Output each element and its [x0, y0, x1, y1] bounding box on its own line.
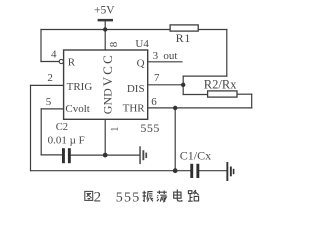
svg-text:2: 2	[47, 72, 53, 84]
wire pin 5 Cvolt stub	[41, 108, 63, 110]
svg-text:5: 5	[46, 96, 52, 108]
svg-text:R2/Rx: R2/Rx	[204, 78, 237, 92]
svg-text:GND: GND	[100, 88, 114, 114]
svg-text:VCC: VCC	[100, 53, 115, 86]
svg-text:DIS: DIS	[127, 83, 145, 95]
power symbol +5V bar	[98, 19, 113, 22]
svg-text:6: 6	[151, 96, 157, 108]
svg-text:C2: C2	[56, 122, 68, 133]
wire rail to R1 right corner	[198, 29, 226, 31]
svg-text:THR: THR	[123, 103, 146, 115]
capacitor C1/Cx plates	[190, 164, 199, 178]
wire bottom rail TRIG-THR-C1 net	[31, 170, 191, 172]
wire R2 right vertical to THR	[251, 94, 253, 108]
wire left loop vertical to pin 4	[40, 30, 42, 62]
node junction dot C2/GND	[103, 153, 108, 158]
wire pin 8 VCC vertical	[104, 30, 106, 51]
wire DIS node vertical	[182, 76, 184, 94]
node junction dot DIS/R1/R2	[181, 83, 185, 87]
wire R1 bottom to DIS node	[183, 75, 227, 77]
svg-text:0.01 µ F: 0.01 µ F	[48, 135, 85, 147]
wire top rail +5V net	[41, 29, 170, 31]
svg-text:Cvolt: Cvolt	[65, 103, 89, 115]
caption glyph 振	[142, 191, 153, 202]
wire +5V drop	[104, 21, 106, 30]
capacitor C2 plates	[62, 148, 71, 163]
svg-text:555: 555	[116, 190, 141, 205]
wire R2 left lead	[183, 94, 207, 96]
svg-text:C1/Cx: C1/Cx	[180, 149, 211, 163]
wire R1 right vertical	[226, 30, 228, 77]
wire pin 2 TRIG stub	[31, 84, 64, 86]
svg-text:2: 2	[94, 190, 102, 206]
svg-text:7: 7	[154, 72, 160, 84]
wire pin 6 THR	[148, 107, 252, 109]
svg-text:+5V: +5V	[94, 4, 115, 16]
resistor R1	[170, 25, 198, 45]
caption glyph 路	[188, 190, 199, 201]
wire R2 right lead	[237, 93, 252, 95]
caption glyph 电	[174, 190, 182, 202]
node junction dot +5V rail	[103, 27, 107, 31]
svg-text:out: out	[163, 50, 177, 62]
wire pin 4 stub	[41, 61, 59, 63]
wire pin 1 GND vertical	[104, 119, 106, 155]
wire THR vertical to C1 node	[174, 108, 176, 171]
svg-text:R1: R1	[176, 31, 192, 45]
svg-text:TRIG: TRIG	[67, 81, 93, 93]
wire pin 5 vertical to C2	[40, 109, 42, 155]
wire pin 2 vertical down	[30, 85, 32, 170]
svg-text:4: 4	[51, 48, 57, 60]
svg-text:U4: U4	[135, 38, 149, 50]
svg-text:Q: Q	[137, 57, 145, 69]
wire C2 right lead to GND	[71, 154, 140, 156]
svg-text:8: 8	[108, 41, 120, 47]
caption glyph 荡	[157, 191, 167, 202]
svg-text:3: 3	[153, 50, 159, 62]
node junction dot THR/C1 top	[173, 106, 177, 110]
wire pin 7 DIS stub	[148, 84, 184, 86]
svg-text:555: 555	[140, 121, 160, 135]
caption figure number 图 glyph	[85, 191, 93, 200]
pin 4 inversion bubble	[59, 59, 63, 63]
ground symbol left	[139, 146, 147, 164]
svg-text:1: 1	[110, 127, 121, 132]
wire C2 left lead	[41, 154, 62, 156]
wire C1 right lead to ground	[199, 170, 226, 172]
svg-text:R: R	[68, 57, 76, 69]
op-amp/IC U4 555 body	[64, 50, 148, 119]
wire pin 3 output stub	[148, 61, 182, 63]
ground symbol right	[226, 162, 234, 181]
node junction dot bottom rail C1	[173, 168, 178, 173]
resistor R2/Rx	[204, 78, 237, 98]
